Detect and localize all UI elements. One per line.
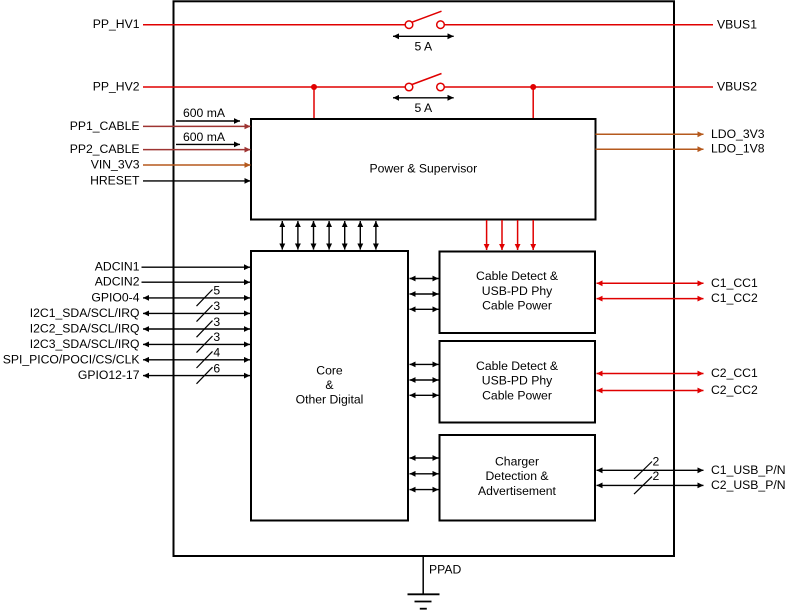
svg-text:C1_CC2: C1_CC2	[711, 291, 758, 305]
svg-text:VBUS2: VBUS2	[717, 80, 757, 94]
bus width 4	[197, 346, 221, 368]
wire C1_USB_P/N	[597, 469, 704, 471]
svg-text:C1_USB_P/N: C1_USB_P/N	[711, 463, 785, 477]
svg-text:ADCIN1: ADCIN1	[95, 260, 140, 274]
wire Power-Core bus 1	[281, 221, 283, 250]
svg-text:PP2_CABLE: PP2_CABLE	[70, 142, 140, 156]
wire PP_HV1 to switch SW1	[143, 24, 405, 26]
svg-text:PP1_CABLE: PP1_CABLE	[70, 119, 140, 133]
svg-text:LDO_3V3: LDO_3V3	[711, 127, 765, 141]
svg-text:GPIO12-17: GPIO12-17	[78, 368, 140, 382]
bus width 3	[197, 315, 221, 337]
bus width 2	[634, 469, 660, 494]
annotation 5 A arrow SW1	[393, 36, 454, 53]
bus width 5	[197, 284, 221, 306]
wire Core-Charger a	[410, 457, 439, 459]
svg-text:Cable Detect &: Cable Detect &	[476, 269, 558, 283]
svg-text:5: 5	[213, 284, 220, 298]
annotation 600 mA arrow 2	[176, 130, 240, 145]
wire C1_CC2	[597, 298, 704, 300]
wire GPIO12-17	[143, 375, 250, 377]
block Core & Other Digital	[251, 251, 408, 521]
wire Power to CableDetect1 supply 1	[486, 220, 488, 250]
svg-text:Charger: Charger	[495, 454, 539, 468]
svg-text:600 mA: 600 mA	[183, 106, 226, 120]
wire Core-Charger c	[410, 489, 439, 491]
block Charger Detection & Advertisement	[440, 435, 596, 521]
annotation 5 A arrow SW2	[393, 98, 454, 115]
wire Power-Core bus 6	[359, 221, 361, 250]
block Power & Supervisor	[251, 119, 596, 220]
svg-text:600 mA: 600 mA	[183, 130, 226, 144]
svg-text:PPAD: PPAD	[429, 562, 461, 576]
wire I2C3_SDA/SCL/IRQ	[143, 343, 250, 345]
svg-text:3: 3	[213, 315, 220, 329]
wire Power-Core bus 4	[328, 221, 330, 250]
svg-text:Other Digital: Other Digital	[296, 393, 364, 407]
bus width 3	[197, 299, 221, 321]
switch SW1	[405, 11, 444, 28]
svg-text:SPI_PICO/POCI/CS/CLK: SPI_PICO/POCI/CS/CLK	[3, 352, 140, 366]
wire Core-Charger b	[410, 473, 439, 475]
svg-text:USB-PD Phy: USB-PD Phy	[482, 374, 553, 388]
wire Power-Core bus 5	[344, 221, 346, 250]
svg-text:4: 4	[213, 346, 220, 360]
wire I2C1_SDA/SCL/IRQ	[143, 312, 250, 314]
wire LDO_3V3	[596, 133, 704, 135]
wire LDO_1V8	[596, 148, 704, 150]
wire HRESET	[143, 180, 251, 182]
svg-text:Power & Supervisor: Power & Supervisor	[369, 162, 477, 176]
svg-text:&: &	[325, 378, 333, 392]
svg-text:Cable Power: Cable Power	[482, 389, 552, 403]
svg-text:5 A: 5 A	[414, 101, 432, 115]
svg-text:3: 3	[213, 299, 220, 313]
svg-text:Detection &: Detection &	[485, 469, 548, 483]
wire C2_CC2	[597, 390, 704, 392]
block Cable Detect & USB-PD Phy Cable Power 1	[440, 252, 596, 334]
svg-text:Cable Detect &: Cable Detect &	[476, 359, 558, 373]
svg-text:I2C2_SDA/SCL/IRQ: I2C2_SDA/SCL/IRQ	[30, 322, 140, 336]
svg-text:C1_CC1: C1_CC1	[711, 276, 758, 290]
wire Core-CableDetect1 b	[410, 293, 439, 295]
wire Core-CableDetect1 c	[410, 308, 439, 310]
svg-text:C2_CC2: C2_CC2	[711, 383, 758, 397]
chip outline	[174, 1, 675, 556]
svg-text:VBUS1: VBUS1	[717, 17, 757, 31]
wire PP2_CABLE	[143, 149, 251, 151]
svg-text:PP_HV1: PP_HV1	[93, 17, 140, 31]
wire Power-Core bus 7	[375, 221, 377, 250]
wire C1_CC1	[597, 282, 704, 284]
wire VIN_3V3	[143, 164, 251, 166]
svg-text:ADCIN2: ADCIN2	[95, 275, 140, 289]
wire Power to CableDetect1 supply 3	[517, 220, 519, 250]
svg-text:2: 2	[653, 469, 660, 483]
wire Core-CableDetect2 c	[410, 394, 439, 396]
switch SW2	[405, 74, 444, 91]
svg-text:USB-PD Phy: USB-PD Phy	[482, 284, 553, 298]
junction node VBUS2 left	[311, 84, 317, 90]
wire Power to CableDetect1 supply 2	[501, 220, 503, 250]
wire PPAD stem	[422, 556, 424, 594]
wire ADCIN2	[142, 281, 251, 283]
wire Core-CableDetect2 a	[410, 363, 439, 365]
wire Core-CableDetect1 a	[410, 278, 439, 280]
wire Power to CableDetect1 supply 4	[532, 220, 534, 250]
svg-text:I2C3_SDA/SCL/IRQ: I2C3_SDA/SCL/IRQ	[30, 337, 140, 351]
svg-text:Advertisement: Advertisement	[478, 484, 557, 498]
svg-text:Core: Core	[316, 363, 343, 377]
wire switch SW1 to VBUS1	[445, 24, 714, 26]
bus width 3	[197, 330, 221, 352]
wire switch SW2 to VBUS2	[445, 86, 714, 88]
svg-text:HRESET: HRESET	[90, 173, 140, 187]
ground symbol	[408, 594, 440, 608]
svg-text:Cable Power: Cable Power	[482, 299, 552, 313]
wire GPIO0-4	[143, 297, 250, 299]
svg-text:2: 2	[653, 455, 660, 469]
wire Core-CableDetect2 b	[410, 379, 439, 381]
svg-text:C2_CC1: C2_CC1	[711, 366, 758, 380]
annotation 600 mA arrow 1	[176, 106, 240, 121]
svg-text:C2_USB_P/N: C2_USB_P/N	[711, 478, 785, 492]
wire ADCIN1	[142, 266, 251, 268]
svg-text:LDO_1V8: LDO_1V8	[711, 142, 765, 156]
bus width 6	[197, 361, 221, 383]
wire PP_HV2 to switch SW2	[143, 86, 405, 88]
svg-text:3: 3	[213, 330, 220, 344]
wire Power-Core bus 3	[313, 221, 315, 250]
svg-text:PP_HV2: PP_HV2	[93, 80, 140, 94]
wire SPI_PICO/POCI/CS/CLK	[143, 359, 250, 361]
bus width 2	[634, 455, 660, 480]
wire junction left to Power box	[313, 87, 315, 118]
wire C2_USB_P/N	[597, 484, 704, 486]
block Cable Detect & USB-PD Phy Cable Power 2	[440, 341, 596, 423]
wire I2C2_SDA/SCL/IRQ	[143, 328, 250, 330]
svg-text:6: 6	[213, 361, 220, 375]
wire PP1_CABLE	[143, 125, 251, 127]
svg-text:VIN_3V3: VIN_3V3	[91, 158, 140, 172]
wire C2_CC1	[597, 373, 704, 375]
wire junction right to Power box	[532, 87, 534, 118]
svg-text:I2C1_SDA/SCL/IRQ: I2C1_SDA/SCL/IRQ	[30, 306, 140, 320]
junction node VBUS2 right	[530, 84, 536, 90]
svg-text:5 A: 5 A	[414, 40, 432, 54]
svg-text:GPIO0-4: GPIO0-4	[91, 290, 139, 304]
wire Power-Core bus 2	[297, 221, 299, 250]
